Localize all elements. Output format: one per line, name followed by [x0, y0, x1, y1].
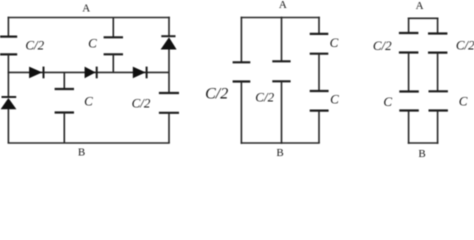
svg-text:C: C	[383, 94, 392, 109]
wire middle branch lower segment (circuit 2)	[281, 81, 283, 144]
diode (left rail, pointing up, circuit 1)	[1, 97, 17, 109]
wire right rail middle segment (circuit 1)	[168, 49, 170, 93]
wire middle rail (circuit 1)	[8, 71, 169, 73]
capacitor C (lower right, circuit 2)	[310, 91, 329, 111]
svg-text:C/2: C/2	[373, 38, 392, 53]
wire left rail upper segment (circuit 2)	[240, 17, 242, 63]
wire top rail (circuit 3)	[408, 17, 439, 19]
diode D2 (middle rail, circuit 1)	[85, 67, 97, 79]
svg-text:A: A	[82, 3, 90, 15]
wire right rail bottom segment (circuit 2)	[318, 111, 320, 143]
wire left rail lower segment (circuit 1)	[7, 109, 9, 143]
diode (right rail, pointing up, circuit 1)	[161, 36, 177, 49]
capacitor C/2 (middle branch, circuit 2)	[272, 61, 290, 81]
capacitor C (upper middle, circuit 1)	[104, 37, 123, 54]
wire right rail bottom segment (circuit 1)	[168, 113, 170, 143]
capacitor C/2 (upper left, circuit 3)	[399, 33, 419, 53]
wire top rail (circuit 1)	[8, 17, 170, 19]
wire right rail middle segment (circuit 2)	[318, 54, 320, 91]
wire stub from top rail to upper C (circuit 1)	[112, 18, 114, 38]
wire stub from upper C to middle rail (circuit 1)	[112, 54, 114, 72]
svg-text:A: A	[279, 0, 287, 11]
svg-text:B: B	[276, 147, 283, 159]
wire top rail (circuit 2)	[241, 17, 320, 19]
capacitor C (lower right, circuit 3)	[429, 91, 448, 110]
svg-text:C: C	[330, 35, 339, 50]
svg-text:C/2: C/2	[132, 96, 151, 111]
capacitor C/2 (right rail, circuit 1)	[159, 93, 179, 113]
wire right branch bottom segment (circuit 3)	[437, 111, 439, 144]
capacitor C (upper right, circuit 2)	[310, 34, 329, 54]
wire left rail lower segment (circuit 2)	[240, 82, 242, 144]
svg-text:C/2: C/2	[205, 86, 228, 103]
wire right branch middle segment (circuit 3)	[437, 53, 439, 92]
capacitor C (lower left, circuit 3)	[399, 92, 419, 111]
wire left rail middle segment (circuit 1)	[7, 54, 9, 97]
svg-text:C: C	[88, 36, 97, 51]
wire left rail upper segment (circuit 1)	[7, 17, 9, 37]
wire bottom rail (circuit 3)	[408, 142, 439, 144]
svg-text:C: C	[459, 93, 468, 108]
wire stub from lower C to bottom rail (circuit 1)	[63, 113, 65, 144]
wire middle branch upper segment (circuit 2)	[281, 17, 283, 62]
wire left branch bottom segment (circuit 3)	[408, 111, 410, 144]
diode D3 (middle rail, circuit 1)	[133, 67, 147, 79]
capacitor C/2 (upper right, circuit 3)	[428, 34, 447, 53]
wire right branch top segment (circuit 3)	[437, 18, 439, 34]
wire bottom rail (circuit 1)	[8, 142, 170, 144]
wire left branch top segment (circuit 3)	[408, 18, 410, 34]
wire stub from middle rail to lower C (circuit 1)	[63, 72, 65, 89]
svg-text:C/2: C/2	[255, 90, 274, 105]
svg-text:C/2: C/2	[456, 37, 474, 52]
svg-text:C/2: C/2	[25, 38, 44, 53]
svg-text:B: B	[78, 147, 85, 159]
capacitor C (lower middle, circuit 1)	[55, 89, 74, 113]
wire bottom rail (circuit 2)	[241, 142, 320, 144]
wire left branch middle segment (circuit 3)	[408, 53, 410, 92]
svg-text:C: C	[330, 91, 339, 106]
svg-text:B: B	[418, 148, 425, 159]
svg-text:C: C	[84, 94, 93, 109]
capacitor C/2 (left rail, circuit 1)	[0, 37, 17, 55]
wire right rail top segment (circuit 2)	[318, 17, 320, 34]
diode D1 (middle rail, circuit 1)	[29, 67, 43, 79]
svg-text:A: A	[416, 0, 424, 12]
capacitor (left rail, circuit 2)	[233, 62, 251, 81]
wire right rail top segment (circuit 1)	[168, 17, 170, 36]
